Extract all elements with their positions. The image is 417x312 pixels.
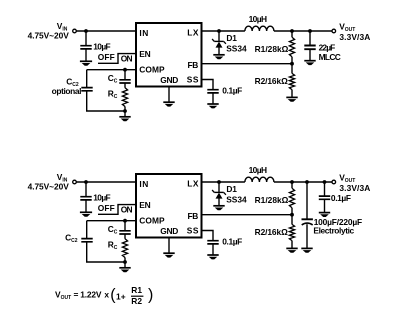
capacitor CC bbox=[124, 221, 126, 231]
svg-text:10µH: 10µH bbox=[249, 14, 267, 24]
junction COMP node bbox=[123, 68, 127, 72]
svg-text:SS: SS bbox=[187, 75, 199, 85]
svg-text:ON: ON bbox=[121, 204, 133, 214]
capacitor 10uF input bbox=[85, 182, 87, 196]
wire GND pin down bbox=[168, 87, 170, 103]
ground below D1 bbox=[213, 54, 224, 56]
svg-text:R1/28kΩ: R1/28kΩ bbox=[255, 44, 289, 54]
svg-text:D1: D1 bbox=[226, 184, 237, 194]
svg-text:R2/16kΩ: R2/16kΩ bbox=[255, 227, 288, 237]
ground below GND pin bbox=[163, 252, 174, 254]
svg-text:IN: IN bbox=[139, 28, 148, 38]
svg-text:=: = bbox=[74, 290, 79, 300]
svg-text:Electrolytic: Electrolytic bbox=[313, 225, 354, 235]
junction comp bottom node bbox=[123, 109, 127, 113]
resistor R2/16k bbox=[291, 64, 293, 74]
wire VIN to IN pin bbox=[76, 30, 136, 32]
wire GND pin down bbox=[168, 238, 170, 254]
svg-text:x: x bbox=[104, 290, 109, 300]
svg-text:0.1µF: 0.1µF bbox=[222, 237, 242, 247]
svg-text:FB: FB bbox=[188, 60, 199, 70]
resistor R2/16k bbox=[291, 215, 293, 225]
wire inductor to VOUT bbox=[274, 30, 332, 32]
formula VOUT = 1.22V x (1 + R1/R2) bbox=[55, 285, 153, 306]
svg-text:SS: SS bbox=[187, 226, 199, 236]
capacitor 0.1uF soft-start bbox=[202, 80, 214, 90]
svg-text:EN: EN bbox=[139, 49, 150, 59]
svg-text:R1/28kΩ: R1/28kΩ bbox=[255, 195, 289, 205]
IC regulator box U1 bbox=[136, 23, 202, 87]
ground below SS cap bbox=[207, 103, 218, 105]
ground below 10uF bbox=[80, 60, 92, 62]
svg-text:10µF: 10µF bbox=[93, 41, 110, 51]
junction LX diode node bbox=[217, 29, 221, 33]
svg-text:R1: R1 bbox=[131, 285, 142, 295]
junction R1 top node bbox=[290, 29, 294, 33]
svg-text:0.1µF: 0.1µF bbox=[331, 193, 351, 203]
capacitor CC2 branch bbox=[86, 70, 88, 88]
junction FB node bbox=[290, 62, 294, 66]
junction FB node bbox=[290, 213, 294, 217]
svg-text:MLCC: MLCC bbox=[319, 52, 341, 62]
ground below output 0.1uF bbox=[319, 212, 330, 214]
ground below RC bbox=[124, 111, 126, 117]
wire inductor to VOUT bbox=[274, 181, 332, 183]
IC regulator box U2 bbox=[136, 174, 202, 238]
svg-text:3.3V/3A: 3.3V/3A bbox=[339, 183, 370, 193]
junction input cap node bbox=[84, 29, 88, 33]
svg-text:SS34: SS34 bbox=[226, 194, 247, 204]
junction R1 top node bbox=[290, 180, 294, 184]
capacitor 0.1uF soft-start bbox=[202, 231, 214, 241]
svg-text:): ) bbox=[148, 287, 153, 304]
svg-text:OFF: OFF bbox=[98, 203, 115, 213]
ground below R2 bbox=[286, 247, 297, 249]
diode D1 SS34 schottky bbox=[218, 31, 220, 41]
junction input cap node bbox=[84, 180, 88, 184]
svg-text:SS34: SS34 bbox=[226, 43, 247, 53]
diode D1 SS34 schottky bbox=[218, 182, 220, 192]
ground below 10uF bbox=[80, 211, 92, 213]
svg-text:OFF: OFF bbox=[98, 52, 115, 62]
svg-text:10µF: 10µF bbox=[93, 192, 110, 202]
svg-text:4.75V~20V: 4.75V~20V bbox=[28, 182, 70, 192]
junction output 0.1uF node bbox=[323, 180, 327, 184]
inductor 10uH bbox=[245, 177, 274, 182]
svg-text:3.3V/3A: 3.3V/3A bbox=[339, 32, 370, 42]
capacitor CC2 branch bbox=[86, 221, 88, 239]
output terminal VOUT bbox=[332, 180, 336, 184]
resistor R1/28k bbox=[291, 182, 293, 188]
svg-text:COMP: COMP bbox=[139, 65, 165, 75]
svg-text:10µH: 10µH bbox=[249, 165, 267, 175]
ground below electrolytic bbox=[301, 247, 312, 249]
resistor R1/28k bbox=[291, 31, 293, 37]
svg-text:GND: GND bbox=[160, 75, 178, 85]
resistor RC bbox=[124, 83, 126, 88]
wire FB to divider bbox=[202, 63, 293, 65]
capacitor 22uF MLCC output bbox=[309, 31, 311, 45]
svg-text:0.1µF: 0.1µF bbox=[222, 86, 242, 96]
svg-text:LX: LX bbox=[187, 178, 199, 188]
svg-text:optional: optional bbox=[52, 86, 82, 96]
ground below D1 bbox=[213, 205, 224, 207]
wire LX to inductor bbox=[202, 30, 245, 32]
wire LX to inductor bbox=[202, 181, 245, 183]
junction LX diode node bbox=[217, 180, 221, 184]
ground below 22uF bbox=[304, 60, 315, 62]
ground below GND pin bbox=[163, 101, 174, 103]
svg-text:ON: ON bbox=[121, 53, 133, 63]
wire COMP to compensation bbox=[87, 69, 136, 71]
EN off/on step waveform bbox=[98, 205, 136, 215]
capacitor 10uF input bbox=[85, 31, 87, 45]
svg-text:FB: FB bbox=[188, 211, 199, 221]
svg-text:EN: EN bbox=[139, 200, 150, 210]
svg-text:R2/16kΩ: R2/16kΩ bbox=[255, 76, 288, 86]
svg-text:1.22V: 1.22V bbox=[80, 290, 102, 300]
svg-text:4.75V~20V: 4.75V~20V bbox=[28, 31, 70, 41]
capacitor 0.1uF output bbox=[324, 182, 326, 196]
output terminal VOUT bbox=[332, 29, 336, 33]
svg-text:+: + bbox=[121, 292, 126, 302]
inductor 10uH bbox=[245, 26, 274, 31]
capacitor CC bbox=[124, 70, 126, 80]
ground below R2 bbox=[286, 96, 297, 98]
input terminal VIN (circuit 1) bbox=[73, 29, 77, 33]
svg-text:COMP: COMP bbox=[139, 216, 165, 226]
junction electrolytic cap node bbox=[305, 180, 309, 184]
svg-text:R2: R2 bbox=[131, 296, 142, 306]
svg-text:IN: IN bbox=[139, 179, 148, 189]
ground below RC bbox=[124, 262, 126, 268]
capacitor 100uF/220uF electrolytic bbox=[306, 182, 308, 219]
wire COMP to compensation bbox=[87, 220, 136, 222]
input terminal VIN (circuit 2) bbox=[73, 180, 77, 184]
junction comp bottom node bbox=[123, 260, 127, 264]
EN off/on step waveform bbox=[98, 54, 136, 64]
wire VIN to IN pin bbox=[76, 181, 136, 183]
svg-text:LX: LX bbox=[187, 27, 199, 37]
resistor RC bbox=[124, 234, 126, 239]
svg-text:GND: GND bbox=[160, 226, 178, 236]
svg-text:D1: D1 bbox=[226, 33, 237, 43]
junction 22uF output cap node bbox=[308, 29, 312, 33]
wire FB to divider bbox=[202, 214, 293, 216]
ground below SS cap bbox=[207, 254, 218, 256]
junction COMP node bbox=[123, 219, 127, 223]
